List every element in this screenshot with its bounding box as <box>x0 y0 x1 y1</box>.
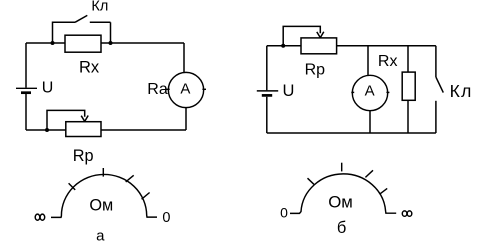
svg-text:Кл: Кл <box>91 0 108 15</box>
node right junction of switch <box>109 41 113 45</box>
svg-text:а: а <box>96 228 105 241</box>
wire switch branch left riser <box>53 22 76 43</box>
ammeter A2 left terminal tick <box>351 91 354 93</box>
wire top right circuit <box>267 45 436 47</box>
wire bottom right circuit <box>267 132 436 134</box>
scale tick 1 (right arc) <box>308 178 314 184</box>
scale tick 1 (left arc) <box>69 183 76 190</box>
svg-text:Rp: Rp <box>305 61 326 78</box>
battery U1 long plate <box>16 87 37 89</box>
switch Kl blade <box>75 15 87 22</box>
wire switch upper (right) <box>435 46 437 77</box>
svg-text:Rx: Rx <box>378 53 398 70</box>
wire left lower (right circuit) <box>266 97 268 133</box>
wire left upper (right battery) <box>266 46 268 91</box>
rheostat Rp (left) <box>66 122 101 137</box>
scale tick 3 (right arc) <box>365 170 373 177</box>
svg-text:A: A <box>365 83 375 100</box>
label infinity (left scale) <box>35 214 45 220</box>
switch Kl blade (right) <box>436 77 443 93</box>
scale tick 3 (left arc) <box>126 175 134 182</box>
rheostat arrow head (right) <box>317 32 324 38</box>
svg-text:Ra: Ra <box>147 81 168 98</box>
wire ammeter riser top (right) <box>367 46 369 76</box>
wire rheostat wiper loop (right) <box>283 26 320 45</box>
node left junction of switch <box>51 41 55 45</box>
resistor Rx (left) <box>65 35 101 52</box>
wire ammeter riser bottom (right) <box>369 111 371 133</box>
svg-text:Ом: Ом <box>328 192 353 211</box>
ammeter A1 left terminal tick <box>166 88 170 90</box>
battery U1 short plate <box>21 91 31 94</box>
svg-text:Rx: Rx <box>79 59 100 77</box>
battery U2 long plate <box>257 90 278 92</box>
label infinity (right scale) <box>402 211 412 216</box>
ammeter A1 circle <box>168 72 203 107</box>
scale arc (left) <box>51 174 157 217</box>
svg-text:Кл: Кл <box>450 81 473 101</box>
svg-text:Ом: Ом <box>89 197 113 215</box>
svg-text:б: б <box>337 219 346 237</box>
ammeter A2 circle <box>352 75 387 110</box>
scale tick 2 (left arc) <box>102 168 104 177</box>
svg-text:U: U <box>283 82 295 100</box>
wire resistor riser top (right) <box>407 46 409 72</box>
wire resistor riser bottom (right) <box>407 100 409 133</box>
wire top left circuit <box>26 42 184 44</box>
wire switch lower contact (right) <box>435 101 437 133</box>
svg-text:0: 0 <box>162 210 170 226</box>
svg-text:Rp: Rp <box>73 147 94 165</box>
rheostat arrow head (left) <box>81 116 88 122</box>
switch Kl fixed contact <box>90 21 111 23</box>
rheostat Rp (right) <box>301 38 337 54</box>
node rheostat tap junction (right) <box>281 44 285 48</box>
wire ammeter riser bottom <box>185 108 187 130</box>
ammeter A2 right terminal tick <box>386 91 389 93</box>
svg-text:U: U <box>42 80 54 97</box>
scale tick 2 (right arc) <box>341 163 343 172</box>
wire bottom left circuit <box>26 129 186 131</box>
svg-text:0: 0 <box>280 204 288 220</box>
scale tick 4 (right arc) <box>380 188 388 194</box>
ammeter A1 right terminal tick <box>202 88 206 90</box>
wire left lower <box>25 94 27 130</box>
wire ammeter riser top <box>183 43 185 72</box>
wire rheostat wiper loop <box>47 110 85 130</box>
svg-text:A: A <box>180 80 190 97</box>
resistor Rx (right, vertical) <box>402 72 415 100</box>
wire left upper (to battery) <box>25 43 27 88</box>
battery U2 short plate <box>262 94 272 97</box>
node rheostat tap junction <box>45 128 49 132</box>
scale tick 4 (left arc) <box>142 193 150 200</box>
scale arc (right) <box>290 174 396 214</box>
wire switch branch right riser <box>110 22 112 43</box>
